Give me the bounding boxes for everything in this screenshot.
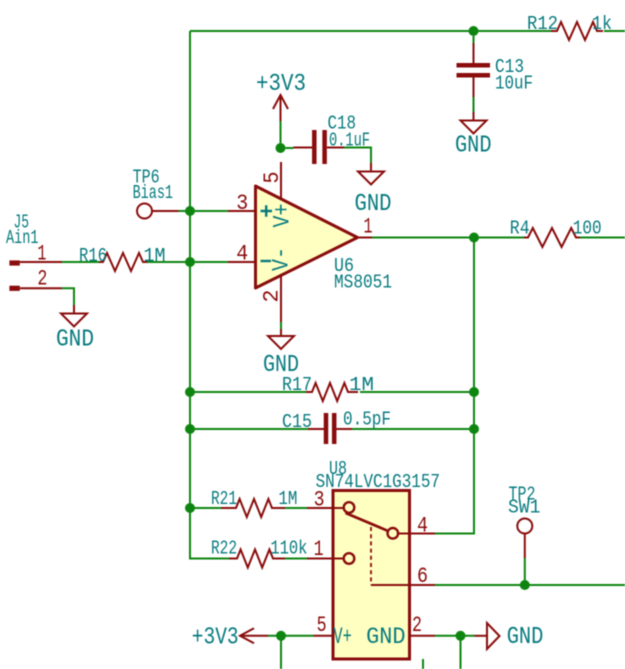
svg-text:1: 1 [37,241,46,267]
svg-text:R16: R16 [79,245,107,267]
svg-text:C15: C15 [282,411,312,433]
svg-text:1M: 1M [278,488,297,510]
svg-text:R4: R4 [510,217,530,239]
svg-text:6: 6 [417,563,428,589]
svg-text:100: 100 [573,217,602,239]
svg-text:5: 5 [259,172,285,184]
svg-text:GND: GND [56,327,94,354]
svg-text:1: 1 [364,214,373,240]
svg-text:3: 3 [314,487,325,513]
svg-text:3: 3 [236,190,248,216]
svg-text:SN74LVC1G3157: SN74LVC1G3157 [316,471,440,493]
svg-text:1M: 1M [144,245,166,267]
svg-text:0.1uF: 0.1uF [329,130,370,152]
svg-text:SW1: SW1 [508,497,540,519]
svg-text:+3V3: +3V3 [192,625,239,652]
svg-text:V+: V+ [333,624,351,651]
svg-text:2: 2 [412,612,422,638]
svg-text:0.5pF: 0.5pF [343,408,391,430]
svg-text:4: 4 [417,513,428,539]
svg-text:GND: GND [507,624,544,651]
svg-text:4: 4 [236,241,248,267]
svg-text:R21: R21 [211,488,237,510]
svg-text:V+: V+ [270,204,297,228]
svg-text:V-: V- [269,247,296,271]
svg-text:1k: 1k [592,13,612,35]
svg-text:R17: R17 [282,374,312,396]
svg-text:GND: GND [355,191,392,218]
svg-text:+3V3: +3V3 [256,71,306,98]
svg-text:110k: 110k [270,538,307,560]
svg-text:MS8051: MS8051 [334,272,392,294]
svg-text:Bias1: Bias1 [133,182,173,204]
svg-text:5: 5 [317,612,327,638]
svg-text:10uF: 10uF [495,73,533,95]
svg-text:1: 1 [314,536,324,562]
svg-text:2: 2 [259,290,285,303]
svg-text:R12: R12 [527,13,558,35]
svg-text:GND: GND [455,133,492,160]
svg-text:R22: R22 [211,538,237,560]
svg-text:GND: GND [366,624,405,651]
svg-text:1M: 1M [349,374,374,396]
svg-text:Ain1: Ain1 [6,227,39,249]
svg-text:2: 2 [37,266,47,292]
